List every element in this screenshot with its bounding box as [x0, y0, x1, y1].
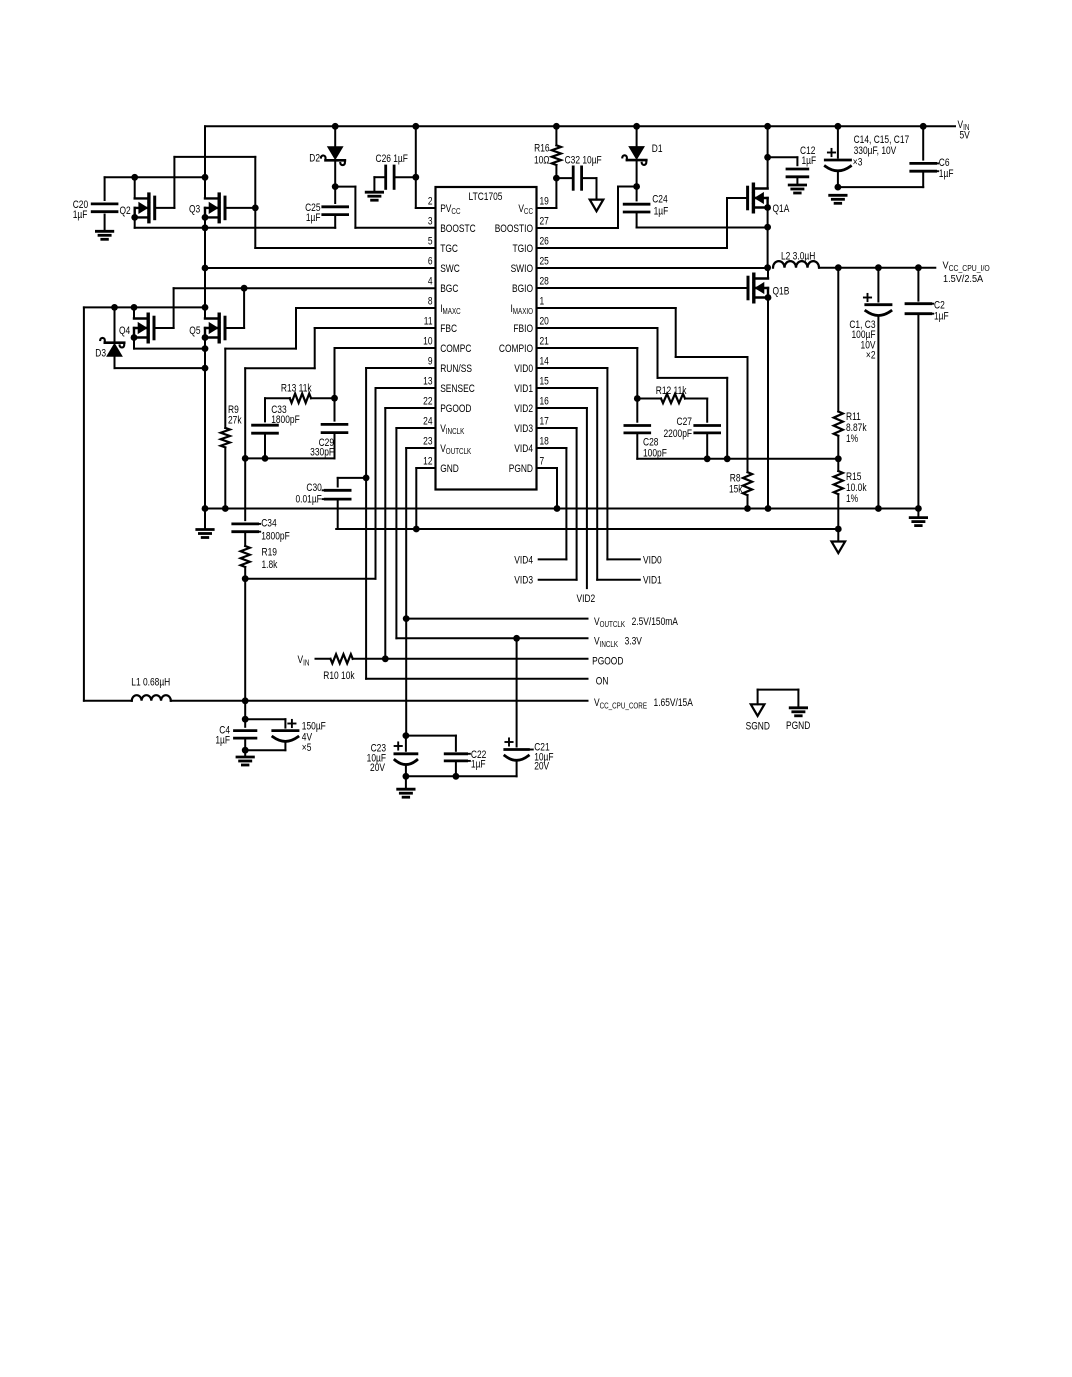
- svg-text:20V: 20V: [370, 762, 385, 774]
- svg-text:R19: R19: [262, 546, 277, 558]
- svg-text:1.5V/2.5A: 1.5V/2.5A: [943, 273, 984, 285]
- svg-text:COMPC: COMPC: [440, 343, 471, 355]
- svg-text:VID1: VID1: [643, 575, 662, 587]
- svg-text:BOOSTC: BOOSTC: [440, 223, 475, 235]
- svg-text:1800pF: 1800pF: [261, 531, 290, 543]
- svg-text:VID2: VID2: [514, 403, 533, 415]
- svg-text:PGOOD: PGOOD: [440, 403, 471, 415]
- svg-text:1: 1: [540, 296, 545, 308]
- svg-text:1µF: 1µF: [73, 209, 88, 221]
- svg-text:FBC: FBC: [440, 323, 457, 335]
- svg-text:D3: D3: [95, 347, 106, 359]
- svg-text:SWIO: SWIO: [511, 263, 534, 275]
- svg-text:5: 5: [428, 236, 433, 248]
- svg-text:ON: ON: [596, 675, 609, 687]
- svg-text:COMPIO: COMPIO: [499, 343, 533, 355]
- svg-text:1µF: 1µF: [934, 311, 949, 323]
- svg-text:19: 19: [540, 196, 549, 208]
- svg-text:TGC: TGC: [440, 243, 458, 255]
- svg-text:SWC: SWC: [440, 263, 460, 275]
- svg-text:VID4: VID4: [514, 443, 533, 455]
- svg-text:FBIO: FBIO: [513, 323, 533, 335]
- svg-text:13: 13: [423, 376, 433, 388]
- svg-text:BGC: BGC: [440, 283, 458, 295]
- svg-text:15: 15: [540, 376, 550, 388]
- svg-text:×5: ×5: [302, 742, 312, 754]
- svg-text:R16: R16: [534, 142, 550, 154]
- svg-text:VID2: VID2: [577, 593, 596, 605]
- svg-text:25: 25: [540, 256, 550, 268]
- svg-text:6: 6: [428, 256, 433, 268]
- svg-text:D1: D1: [652, 143, 663, 155]
- svg-text:C27: C27: [677, 416, 692, 428]
- svg-text:1800pF: 1800pF: [271, 414, 300, 426]
- svg-text:Q3: Q3: [189, 204, 201, 216]
- svg-text:Q2: Q2: [120, 205, 131, 217]
- svg-text:8: 8: [428, 296, 433, 308]
- svg-text:1µF: 1µF: [471, 759, 486, 771]
- svg-text:15k: 15k: [729, 484, 743, 496]
- svg-text:22: 22: [423, 396, 432, 408]
- svg-text:4: 4: [428, 276, 433, 288]
- svg-text:14: 14: [540, 356, 550, 368]
- svg-text:×2: ×2: [866, 350, 876, 362]
- svg-text:R13 11k: R13 11k: [281, 383, 312, 395]
- svg-text:1µF: 1µF: [306, 212, 321, 224]
- svg-text:20: 20: [540, 316, 550, 328]
- svg-text:23: 23: [423, 436, 433, 448]
- svg-text:17: 17: [540, 416, 549, 428]
- svg-text:2: 2: [428, 196, 433, 208]
- svg-text:Q4: Q4: [119, 325, 131, 337]
- svg-text:24: 24: [423, 416, 433, 428]
- svg-text:VID3: VID3: [514, 423, 533, 435]
- svg-text:0.01µF: 0.01µF: [295, 493, 321, 505]
- svg-text:GND: GND: [440, 463, 459, 475]
- svg-text:11: 11: [424, 316, 433, 328]
- svg-text:16: 16: [540, 396, 550, 408]
- svg-text:VID4: VID4: [514, 554, 533, 566]
- svg-text:L1 0.68µH: L1 0.68µH: [131, 676, 170, 688]
- svg-text:PGND: PGND: [786, 720, 810, 732]
- svg-text:PGOOD: PGOOD: [592, 656, 623, 668]
- svg-text:BGIO: BGIO: [512, 283, 533, 295]
- svg-text:1µF: 1µF: [215, 735, 230, 747]
- svg-text:TGIO: TGIO: [512, 243, 533, 255]
- svg-text:C24: C24: [652, 193, 668, 205]
- svg-text:12: 12: [423, 456, 432, 468]
- svg-text:1%: 1%: [846, 493, 858, 505]
- svg-text:26: 26: [540, 236, 550, 248]
- svg-text:10: 10: [423, 336, 433, 348]
- svg-text:10Ω: 10Ω: [534, 155, 550, 167]
- svg-text:VID3: VID3: [514, 575, 533, 587]
- svg-text:VID0: VID0: [514, 363, 533, 375]
- svg-text:Q5: Q5: [189, 325, 201, 337]
- svg-text:Q1A: Q1A: [773, 203, 790, 215]
- svg-text:SENSEC: SENSEC: [440, 383, 475, 395]
- svg-text:5V: 5V: [960, 130, 971, 142]
- svg-text:SGND: SGND: [746, 721, 770, 733]
- svg-text:PGND: PGND: [509, 463, 533, 475]
- svg-text:VID0: VID0: [643, 554, 662, 566]
- svg-text:1%: 1%: [846, 433, 858, 445]
- svg-text:27: 27: [540, 216, 549, 228]
- svg-text:330pF: 330pF: [310, 447, 334, 459]
- svg-text:28: 28: [540, 276, 550, 288]
- svg-text:3: 3: [428, 216, 433, 228]
- svg-text:D2: D2: [309, 153, 320, 165]
- svg-text:C32 10µF: C32 10µF: [565, 155, 602, 167]
- svg-text:RUN/SS: RUN/SS: [440, 363, 472, 375]
- svg-text:27k: 27k: [228, 414, 242, 426]
- svg-text:L2 3.0µH: L2 3.0µH: [781, 251, 815, 263]
- svg-text:LTC1705: LTC1705: [469, 191, 503, 203]
- svg-text:7: 7: [540, 456, 545, 468]
- svg-text:VID1: VID1: [514, 383, 533, 395]
- svg-text:C26 1µF: C26 1µF: [376, 153, 408, 165]
- svg-text:1.8k: 1.8k: [262, 559, 278, 571]
- svg-text:Q1B: Q1B: [773, 285, 790, 297]
- svg-text:1µF: 1µF: [654, 206, 669, 218]
- svg-text:1µF: 1µF: [939, 168, 954, 180]
- svg-text:R12 11k: R12 11k: [656, 385, 687, 397]
- svg-text:9: 9: [428, 356, 433, 368]
- svg-text:18: 18: [540, 436, 550, 448]
- svg-text:×3: ×3: [853, 156, 863, 168]
- svg-text:R10 10k: R10 10k: [323, 670, 354, 682]
- svg-text:20V: 20V: [534, 761, 549, 773]
- svg-text:21: 21: [540, 336, 549, 348]
- svg-text:C34: C34: [261, 517, 277, 529]
- svg-text:2200pF: 2200pF: [664, 428, 693, 440]
- svg-text:BOOSTIO: BOOSTIO: [495, 223, 534, 235]
- svg-text:1µF: 1µF: [802, 155, 817, 167]
